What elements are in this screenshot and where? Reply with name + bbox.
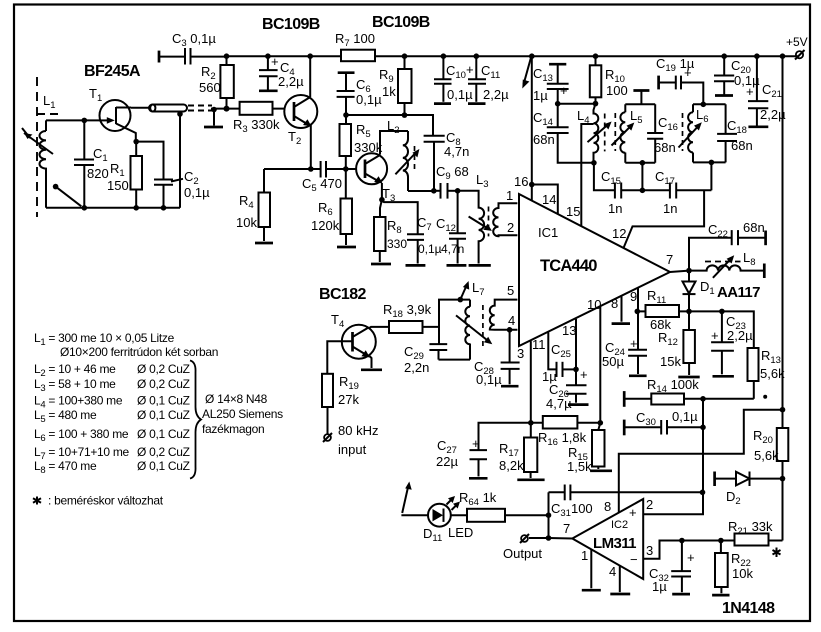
pin 13 wire	[562, 319, 576, 370]
node pin9/R11	[635, 309, 641, 315]
svg-text:L5 = 480 me: L5 = 480 me	[34, 408, 97, 425]
svg-text:0,1µ: 0,1µ	[447, 87, 473, 102]
inductor L1	[22, 120, 53, 207]
node C23	[719, 309, 725, 315]
svg-text:R3 330k: R3 330k	[233, 117, 280, 135]
ground at cable	[213, 110, 215, 126]
svg-text:3: 3	[517, 346, 524, 361]
svg-text:Output: Output	[503, 546, 542, 561]
capacitor C31	[549, 485, 703, 539]
capacitor C5	[302, 161, 346, 194]
capacitor C20	[714, 53, 760, 95]
svg-text:L6 = 100 + 380 me: L6 = 100 + 380 me	[34, 427, 129, 444]
svg-text:8,2k: 8,2k	[499, 458, 524, 473]
transistor T1 (JFET BF245A)	[89, 86, 136, 142]
pin 7 wire	[666, 252, 692, 273]
svg-text:L6: L6	[696, 107, 709, 125]
svg-text:330: 330	[387, 237, 407, 251]
svg-text:820: 820	[87, 166, 109, 181]
wire T2 collector to rail	[309, 56, 311, 97]
capacitor C2	[154, 169, 210, 208]
wire cable to node	[211, 108, 240, 110]
node R22	[718, 538, 724, 544]
pin 4 ground	[609, 564, 630, 594]
legend coil winding table	[33, 331, 283, 508]
svg-text:0,1µ: 0,1µ	[672, 409, 698, 424]
svg-text:68n: 68n	[743, 220, 765, 235]
svg-text:C13: C13	[533, 66, 553, 84]
capacitor C16	[647, 115, 678, 155]
svg-text:120k: 120k	[311, 218, 340, 233]
inductor L4 (tapped)	[577, 104, 612, 163]
wire R3 to T2 base	[273, 108, 295, 110]
resistor R9	[379, 53, 412, 117]
svg-text:12: 12	[612, 226, 626, 241]
svg-text:T1: T1	[89, 86, 102, 104]
resistor R19	[322, 374, 359, 434]
node T2 collector rail	[307, 53, 313, 59]
resistor R5	[340, 115, 383, 169]
svg-text:4: 4	[508, 313, 515, 328]
svg-text:+: +	[630, 336, 638, 351]
capacitor C7	[406, 215, 442, 265]
resistor R15	[567, 423, 612, 474]
svg-text:C30: C30	[636, 410, 656, 428]
svg-text:LM311: LM311	[593, 535, 636, 552]
svg-text:L3 = 58 + 10 me: L3 = 58 + 10 me	[34, 377, 116, 394]
capacitor C4	[259, 53, 304, 90]
pin 11 wire	[532, 332, 557, 369]
svg-text:L2: L2	[387, 118, 400, 136]
node pin8 bus	[780, 407, 786, 413]
svg-text:Ø 0,1 CuZ: Ø 0,1 CuZ	[137, 394, 190, 408]
transistor T4 (BC182)	[331, 312, 376, 359]
wire pin 7 output	[549, 521, 573, 539]
svg-text:AL250 Siemens: AL250 Siemens	[202, 407, 283, 421]
svg-text:8: 8	[604, 499, 611, 514]
svg-text:2,2n: 2,2n	[404, 360, 429, 375]
svg-text:8: 8	[611, 296, 618, 311]
pin 10 wire	[587, 297, 601, 423]
svg-text:T2: T2	[288, 129, 301, 147]
pin 8 wire LM311	[604, 410, 783, 514]
svg-text:L1: L1	[43, 93, 56, 111]
svg-text:7: 7	[666, 252, 673, 267]
pin 1 ground	[581, 548, 601, 590]
svg-text:11: 11	[532, 337, 546, 352]
resistor R10	[590, 53, 628, 106]
svg-text:R16 1,8k: R16 1,8k	[538, 430, 587, 448]
svg-text:80 kHz: 80 kHz	[338, 423, 378, 438]
svg-text:R8: R8	[387, 218, 402, 236]
wire to C2	[136, 142, 163, 180]
svg-text:Ø 0,2 CuZ: Ø 0,2 CuZ	[137, 362, 190, 376]
svg-text:+: +	[271, 54, 279, 69]
svg-text:560: 560	[199, 80, 221, 95]
transistor T3 (BC109B)	[356, 153, 395, 204]
svg-text:1k: 1k	[382, 84, 396, 99]
wire base bias row	[346, 115, 433, 136]
svg-text:R12: R12	[658, 330, 678, 348]
node R2 bottom / R3	[224, 106, 230, 112]
svg-text:R4: R4	[239, 193, 254, 211]
svg-text:L4: L4	[577, 108, 590, 126]
svg-text:1n: 1n	[663, 201, 677, 216]
svg-text:: beméréskor változhat: : beméréskor változhat	[48, 494, 164, 508]
inductor L8	[689, 250, 764, 278]
svg-text:0,1µ: 0,1µ	[356, 92, 382, 107]
node C2 bottom	[161, 205, 167, 211]
svg-text:+: +	[629, 505, 637, 520]
node R16/R15/pin10	[598, 420, 604, 426]
resistor R1	[107, 142, 142, 208]
svg-text:IC2: IC2	[611, 519, 628, 531]
wire L2 bottom	[408, 190, 434, 192]
node C32	[679, 538, 685, 544]
inductor L3 tank winding	[458, 172, 492, 265]
Output terminal	[503, 534, 549, 561]
capacitor C28	[474, 330, 520, 387]
svg-text:C9 68: C9 68	[436, 164, 469, 182]
svg-text:+: +	[580, 367, 588, 382]
wire T2 emitter down	[310, 125, 312, 169]
svg-text:27k: 27k	[338, 392, 359, 407]
tank L5 loop	[612, 91, 656, 191]
svg-text:1,5k: 1,5k	[567, 459, 592, 474]
svg-text:C31100: C31100	[551, 501, 593, 519]
svg-text:C12: C12	[436, 216, 456, 234]
svg-text:C25: C25	[551, 342, 571, 360]
svg-text:R13: R13	[761, 348, 781, 366]
svg-text:2,2µ: 2,2µ	[483, 87, 509, 102]
node L4 bottom	[591, 160, 597, 166]
svg-text:1µ: 1µ	[652, 579, 667, 594]
svg-text:input: input	[338, 442, 367, 457]
svg-text:fazékmagon: fazékmagon	[202, 422, 264, 436]
svg-text:D1: D1	[700, 279, 715, 297]
svg-text:10k: 10k	[236, 215, 257, 230]
svg-text:5: 5	[507, 283, 514, 298]
capacitor C32	[649, 541, 695, 595]
svg-text:Ø 0,1 CuZ: Ø 0,1 CuZ	[137, 427, 190, 441]
capacitor C22	[689, 220, 766, 271]
svg-text:+: +	[466, 62, 474, 77]
capacitor C13	[533, 64, 569, 104]
wire T4 collector	[369, 327, 390, 329]
capacitor C27	[436, 423, 531, 479]
svg-text:1: 1	[581, 548, 588, 563]
svg-text:10k: 10k	[732, 566, 753, 581]
diode D1 AA117	[683, 271, 761, 312]
svg-text:1µ: 1µ	[533, 88, 548, 103]
capacitor C11	[466, 53, 509, 103]
capacitor C19	[656, 56, 703, 104]
node D1/R11/R12	[686, 309, 692, 315]
svg-text:R11: R11	[647, 288, 666, 306]
node D2/R20	[780, 476, 786, 482]
svg-text:+: +	[746, 84, 754, 99]
svg-text:R5: R5	[356, 122, 371, 140]
svg-text:R18 3,9k: R18 3,9k	[383, 302, 432, 320]
resistor R3	[233, 102, 280, 135]
svg-text:22µ: 22µ	[436, 454, 458, 469]
svg-text:L5: L5	[630, 108, 643, 126]
svg-text:150: 150	[107, 178, 129, 193]
capacitor C23	[711, 311, 753, 376]
svg-text:L3: L3	[476, 172, 489, 190]
node C6 bottom	[343, 112, 349, 118]
svg-text:+: +	[472, 436, 480, 451]
node L5 drop on C15 wire	[640, 188, 646, 194]
comparator IC2 LM311	[572, 499, 643, 579]
LED D11	[401, 482, 473, 545]
svg-text:100: 100	[606, 83, 628, 98]
svg-text:BC109B: BC109B	[262, 16, 320, 33]
svg-text:4,7µ: 4,7µ	[546, 396, 572, 411]
inductor L2	[387, 118, 419, 191]
pin 12 wire	[612, 190, 704, 248]
coax cable sleeve	[149, 105, 212, 112]
rail variable arrow	[522, 58, 531, 89]
power rail +5V	[227, 55, 800, 57]
resistor R2	[199, 53, 234, 108]
pin 14 wire	[532, 185, 558, 215]
tank L7 loop (tapped)	[439, 280, 493, 360]
resistor R18	[383, 302, 439, 333]
wire emitter row	[264, 168, 321, 170]
svg-text:15k: 15k	[660, 354, 681, 369]
capacitor C25	[542, 342, 576, 384]
svg-text:R19: R19	[339, 374, 359, 392]
svg-text:R17: R17	[499, 441, 519, 459]
node C8/L2/C9	[431, 188, 437, 194]
svg-text:68n: 68n	[731, 138, 753, 153]
svg-text:IC1: IC1	[538, 225, 558, 240]
pin 3 wire	[643, 541, 682, 559]
wire T3 collector	[380, 131, 408, 200]
svg-text:9: 9	[630, 289, 637, 304]
resistor R64	[451, 490, 549, 522]
svg-text:+: +	[560, 83, 568, 98]
svg-text:2: 2	[507, 220, 514, 235]
svg-text:LED: LED	[448, 525, 473, 540]
wire top left loop	[46, 119, 100, 121]
svg-text:C7: C7	[417, 215, 432, 233]
svg-text:4,7n: 4,7n	[444, 144, 469, 159]
svg-text:−: −	[630, 552, 638, 567]
svg-text:Ø 14×8 N48: Ø 14×8 N48	[205, 392, 268, 406]
capacitor C3	[159, 31, 227, 65]
node R14/C30 vertical	[700, 396, 706, 402]
svg-text:13: 13	[562, 323, 576, 338]
capacitor C8	[424, 130, 470, 191]
wire C13 to R10	[558, 103, 596, 105]
tank L6 loop	[679, 102, 726, 191]
node C30	[700, 425, 706, 431]
svg-text:C21: C21	[762, 82, 782, 100]
svg-text:0,1µ: 0,1µ	[184, 185, 210, 200]
wire T1 drain	[131, 107, 149, 109]
resistor R14	[624, 377, 754, 407]
svg-text:4,7n: 4,7n	[441, 242, 464, 256]
svg-text:BF245A: BF245A	[84, 63, 141, 80]
svg-text:Ø 0,2 CuZ: Ø 0,2 CuZ	[137, 377, 190, 391]
node C9 right	[455, 188, 461, 194]
capacitor C6	[337, 73, 382, 115]
capacitor C29	[404, 344, 447, 375]
capacitor C10	[434, 53, 473, 103]
svg-text:R14 100k: R14 100k	[647, 377, 699, 395]
svg-text:L7: L7	[472, 280, 485, 298]
capacitor C12	[436, 191, 466, 266]
diode D2	[715, 472, 783, 508]
svg-text:C14: C14	[533, 110, 553, 128]
svg-text:Ø10×200 ferritrúdon két sor: Ø10×200 ferritrúdon két sorban	[60, 345, 218, 359]
resistor R8	[371, 200, 407, 264]
capacitor C15	[601, 169, 670, 216]
wire L4 bottom to C15	[594, 163, 615, 191]
svg-text:R64 1k: R64 1k	[459, 490, 497, 508]
svg-text:2,2µ: 2,2µ	[727, 328, 753, 343]
svg-text:C5 470: C5 470	[302, 176, 342, 194]
svg-text:Ø 0,1 CuZ: Ø 0,1 CuZ	[137, 408, 190, 422]
svg-text:1: 1	[506, 188, 513, 203]
adjust mark dot	[763, 395, 767, 399]
resistor R7	[335, 31, 375, 61]
svg-text:0,1µ: 0,1µ	[476, 372, 502, 387]
wire pin3 row	[682, 540, 735, 542]
wire bottom left loop	[46, 207, 180, 209]
+5V bus down right side	[780, 53, 786, 428]
pin 9 wire	[630, 288, 638, 312]
node pin4/C28	[507, 327, 513, 333]
capacitor C24	[602, 311, 647, 375]
svg-text:+: +	[684, 65, 692, 80]
node T3 emitter	[379, 197, 385, 203]
svg-text:R9: R9	[379, 67, 394, 85]
resistor R22	[712, 541, 753, 596]
resistor R13	[748, 348, 786, 399]
resistor R21	[728, 519, 783, 557]
wire R14 node down to LM311 pin2	[643, 399, 703, 514]
svg-text:TCA440: TCA440	[540, 257, 597, 275]
+5V terminal	[786, 35, 808, 60]
wire to T3 base	[346, 168, 365, 170]
svg-text:5,6k: 5,6k	[754, 448, 779, 463]
svg-text:16: 16	[514, 174, 528, 189]
pin 15 wire to L4 tap	[566, 124, 594, 226]
svg-text:5,6k: 5,6k	[760, 366, 785, 381]
op-amp IC1 TCA440	[519, 194, 670, 346]
svg-text:4: 4	[609, 564, 616, 579]
svg-text:3: 3	[646, 543, 653, 558]
node top C1	[82, 118, 88, 124]
inductor L7 secondary	[490, 300, 518, 330]
svg-text:68n: 68n	[654, 140, 676, 155]
node cable ground	[211, 107, 217, 113]
L1 slider tap	[53, 184, 82, 207]
svg-text:D11: D11	[423, 526, 442, 544]
pin 3 wire	[517, 341, 531, 423]
capacitor C17	[655, 169, 711, 216]
node T1 source	[133, 139, 139, 145]
svg-text:7: 7	[563, 521, 570, 536]
capacitor C21	[746, 53, 786, 126]
capacitor C18	[717, 118, 753, 153]
wire shield drop	[179, 110, 181, 208]
wire C7 row	[382, 201, 418, 234]
svg-text:C1: C1	[93, 146, 108, 164]
node C31 wire	[700, 490, 706, 496]
svg-text:15: 15	[566, 204, 580, 219]
resistor R12	[658, 311, 700, 377]
resistor R4	[236, 169, 273, 243]
svg-text:50µ: 50µ	[602, 354, 624, 369]
svg-text:0,1µ: 0,1µ	[418, 242, 442, 256]
capacitor C26	[546, 367, 589, 411]
capacitor C9	[434, 164, 469, 199]
svg-text:R1: R1	[110, 161, 125, 179]
node pin3/R16/C27	[528, 420, 534, 426]
node R1 bottom	[133, 205, 139, 211]
node C25/C26	[573, 367, 579, 373]
svg-text:Ø 0,1 CuZ: Ø 0,1 CuZ	[137, 459, 190, 473]
resistor R17	[499, 423, 545, 480]
svg-text:1n: 1n	[608, 201, 622, 216]
svg-text:2,2µ: 2,2µ	[278, 74, 304, 89]
svg-text:+: +	[711, 328, 719, 343]
transistor T2 (BC109B)	[284, 95, 317, 147]
svg-text:L8: L8	[743, 250, 756, 268]
svg-text:AA117: AA117	[717, 284, 760, 301]
pin 16 wire from rail	[514, 53, 535, 201]
resistor R6	[311, 169, 356, 247]
svg-text:68n: 68n	[533, 132, 555, 147]
node T2 emitter	[308, 166, 314, 172]
capacitor C30	[624, 409, 703, 435]
wire T4 base	[327, 341, 352, 374]
capacitor C14	[533, 104, 594, 163]
pin 8 IC1 ground	[611, 296, 630, 324]
resistor R11	[637, 288, 689, 332]
resistor R20	[753, 428, 788, 541]
node C13/C14	[555, 101, 561, 107]
svg-text:T4: T4	[331, 312, 344, 330]
svg-text:2: 2	[646, 497, 653, 512]
80 kHz input terminal	[323, 423, 378, 457]
svg-text:10: 10	[587, 297, 601, 312]
capacitor C1	[74, 120, 109, 207]
svg-text:C17: C17	[655, 169, 675, 187]
svg-text:+: +	[687, 550, 695, 565]
svg-text:+5V: +5V	[786, 35, 808, 49]
svg-text:1N4148: 1N4148	[722, 600, 775, 617]
svg-text:14: 14	[542, 192, 556, 207]
antenna dashed enclosure L1	[37, 77, 58, 217]
resistor R16	[531, 416, 601, 448]
wire T4 emitter ground	[361, 356, 382, 370]
node output	[546, 535, 552, 541]
wire R11 row	[689, 311, 754, 348]
svg-text:R6: R6	[318, 200, 333, 218]
svg-text:R20: R20	[753, 428, 773, 446]
node bottom C1	[82, 205, 88, 211]
svg-text:D2: D2	[726, 489, 741, 507]
svg-text:Ø 0,2 CuZ: Ø 0,2 CuZ	[137, 445, 190, 459]
svg-text:C16: C16	[658, 115, 678, 133]
node shield top	[177, 111, 183, 117]
node R5/R6/C5	[343, 166, 349, 172]
